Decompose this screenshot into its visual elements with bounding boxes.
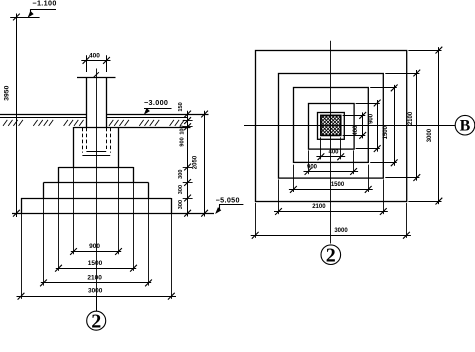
svg-text:900: 900 xyxy=(307,164,318,170)
section dimension 1500 xyxy=(55,260,137,272)
svg-text:400: 400 xyxy=(89,52,100,59)
plan dim 3000 vertical xyxy=(408,47,442,205)
ground line lower left xyxy=(0,117,86,119)
svg-text:2: 2 xyxy=(326,244,336,266)
svg-text:2100: 2100 xyxy=(312,204,326,210)
svg-text:−3.000: −3.000 xyxy=(144,98,168,107)
step 2 top edge xyxy=(44,182,149,184)
section dimension 900 xyxy=(70,243,122,255)
pedestal block left edge xyxy=(73,127,75,167)
svg-text:150: 150 xyxy=(178,102,184,111)
column break top line xyxy=(77,77,116,79)
svg-text:3000: 3000 xyxy=(334,228,348,234)
svg-text:300: 300 xyxy=(178,170,184,179)
svg-text:3000: 3000 xyxy=(88,288,103,295)
section axis bubble 2 xyxy=(87,296,106,332)
foundation top edge / hatch bottom line xyxy=(74,127,191,129)
plan dim 900 vertical xyxy=(356,100,381,152)
column left side xyxy=(86,78,88,127)
plan dim 400 horizontal xyxy=(316,137,345,160)
plan column cross-section hatched xyxy=(291,115,369,135)
vertical dimension 3950 xyxy=(3,14,20,218)
plan axis bubble 2 xyxy=(321,244,341,266)
column axis centerline with break mark xyxy=(94,69,99,312)
level mark -1.100 xyxy=(28,0,56,17)
slab top edge xyxy=(21,198,171,200)
svg-text:900: 900 xyxy=(368,113,374,124)
slab left edge xyxy=(21,198,23,213)
step 2 left edge xyxy=(43,183,45,199)
svg-text:100: 100 xyxy=(180,125,186,134)
step 1 right edge xyxy=(133,167,135,183)
level mark -5.050 xyxy=(216,196,244,214)
svg-text:B: B xyxy=(460,117,471,134)
svg-text:900: 900 xyxy=(179,137,185,146)
ground line upper left xyxy=(0,114,86,116)
svg-text:400: 400 xyxy=(353,125,359,136)
plan outer square 3000 xyxy=(256,51,407,202)
svg-text:−5.050: −5.050 xyxy=(216,196,240,205)
plan square 900 xyxy=(309,104,355,150)
pedestal block right edge xyxy=(118,127,120,167)
top extension line at level -1.100 xyxy=(10,17,39,19)
column embedded in socket dashed xyxy=(86,128,106,152)
svg-text:3000: 3000 xyxy=(427,128,433,142)
section right dimension chain line xyxy=(183,111,193,217)
svg-text:1500: 1500 xyxy=(383,125,389,139)
step 2 right edge xyxy=(148,183,150,199)
plan dim 1500 vertical xyxy=(370,85,397,167)
level mark -3.000 xyxy=(144,98,172,114)
ground line lower right xyxy=(107,117,188,119)
svg-text:300: 300 xyxy=(178,200,184,209)
svg-text:2: 2 xyxy=(91,311,101,333)
svg-text:1500: 1500 xyxy=(88,260,103,267)
plan vertical centerline xyxy=(330,41,332,244)
ground hatching xyxy=(3,120,184,126)
step 1 top edge xyxy=(59,167,134,169)
svg-text:2100: 2100 xyxy=(87,274,102,281)
column right side xyxy=(106,78,108,127)
svg-text:300: 300 xyxy=(178,185,184,194)
plan dim 3000 horizontal xyxy=(251,203,411,239)
plan dim 2100 vertical xyxy=(385,70,420,181)
dimension 400 over column xyxy=(81,52,110,72)
svg-text:2050: 2050 xyxy=(192,155,198,169)
svg-text:−1.100: −1.100 xyxy=(32,0,56,8)
section dimension 3000 xyxy=(17,288,177,300)
ground line upper right xyxy=(107,114,209,116)
section dimension 2100 xyxy=(40,274,152,286)
chain labels 150 100 900 300 300 300 xyxy=(178,102,186,209)
row axis bubble B xyxy=(455,115,475,135)
svg-text:3950: 3950 xyxy=(3,85,10,100)
plan dim 400 vertical xyxy=(343,112,367,139)
slab right edge xyxy=(171,198,173,213)
plan dim 2100 horizontal xyxy=(274,179,388,215)
extension lines below steps xyxy=(22,167,172,299)
plan horizontal centerline xyxy=(244,125,455,127)
plan dim 900 horizontal xyxy=(304,150,359,175)
plan socket rim square xyxy=(318,113,345,140)
svg-text:400: 400 xyxy=(328,150,339,156)
section overall dimension 2050 xyxy=(192,111,208,217)
svg-text:900: 900 xyxy=(89,243,100,250)
slab bottom edge xyxy=(12,213,214,215)
plan square 2100 xyxy=(279,74,384,179)
step 1 left edge xyxy=(58,167,60,183)
socket cavity dashed outline xyxy=(82,128,110,156)
plan square 1500 xyxy=(294,88,369,163)
svg-text:2100: 2100 xyxy=(408,111,414,125)
svg-text:1500: 1500 xyxy=(331,182,345,188)
plan dim 1500 horizontal xyxy=(289,165,373,193)
